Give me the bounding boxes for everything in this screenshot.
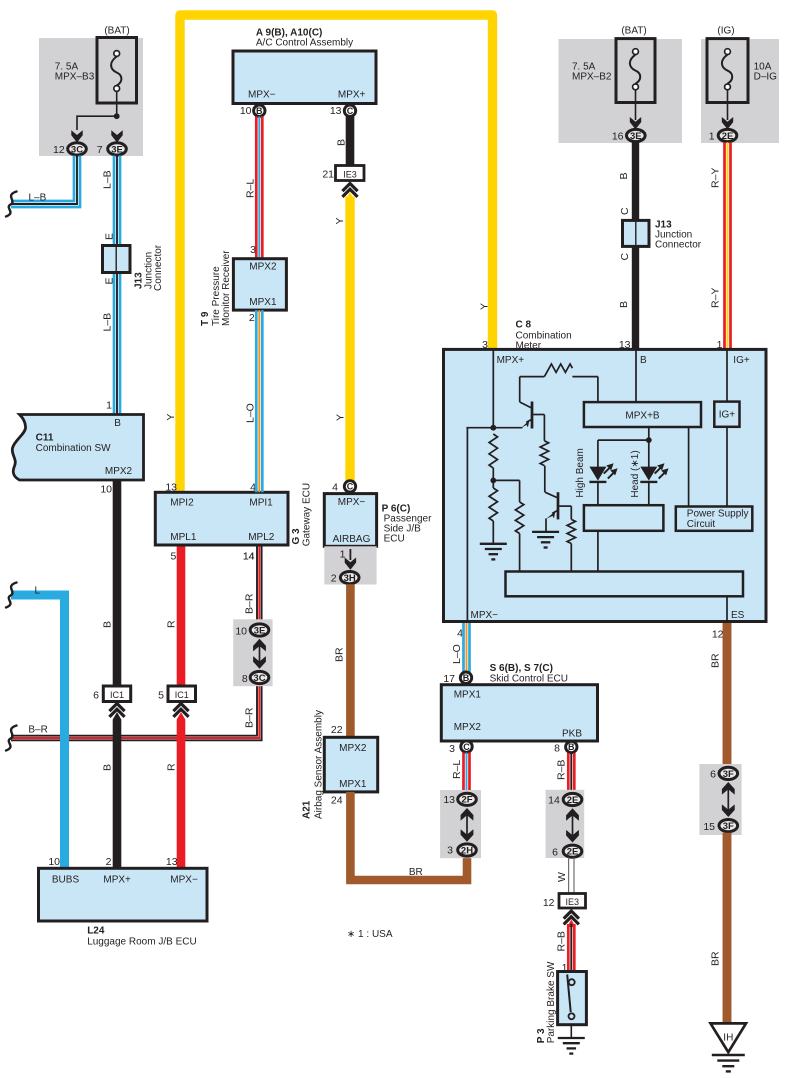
svg-text:MPI1: MPI1: [249, 497, 273, 508]
svg-text:24: 24: [331, 794, 343, 806]
svg-text:Y: Y: [334, 217, 346, 224]
component P3 Parking Brake SW: [558, 972, 587, 1025]
wire L-O from T9 to Gateway MPI1: [255, 310, 258, 492]
connector 2H: [458, 844, 477, 856]
label J13 left title: [134, 244, 165, 291]
box power supply circuit: [676, 507, 753, 531]
wire junction to MPX- line: [466, 427, 522, 429]
svg-text:B: B: [618, 172, 630, 179]
ground IH bars: [712, 1055, 745, 1071]
svg-text:R–Y: R–Y: [710, 288, 722, 308]
svg-text:Y: Y: [335, 414, 347, 421]
svg-text:5: 5: [171, 550, 177, 562]
wire MPX+ internal: [492, 349, 494, 427]
svg-text:Circuit: Circuit: [687, 519, 716, 530]
connector 3E right: [627, 129, 646, 141]
svg-text:R–Y: R–Y: [710, 168, 722, 188]
node junction divider: [490, 478, 496, 484]
wire L-B from 3C to left edge: [11, 156, 80, 208]
wire BR from 3F to IH: [723, 833, 732, 1024]
svg-text:MPX−: MPX−: [170, 874, 198, 885]
svg-text:14: 14: [243, 550, 255, 562]
component C8 Combination Meter box: [444, 349, 767, 621]
wire break squiggle L: [6, 583, 17, 608]
svg-text:17: 17: [443, 673, 455, 685]
svg-text:A21: A21: [302, 800, 313, 819]
arrow chevron below IC1 black: [112, 703, 123, 720]
svg-text:2E: 2E: [567, 795, 579, 806]
wire lamp driver to long box: [597, 531, 599, 572]
connector IC1 on B wire: [103, 686, 130, 702]
svg-text:2F: 2F: [461, 795, 472, 806]
svg-text:(BAT): (BAT): [621, 26, 646, 37]
svg-text:14: 14: [548, 795, 560, 807]
connector 3F lower: [719, 820, 738, 832]
svg-text:1: 1: [709, 130, 715, 142]
svg-text:L–O: L–O: [451, 644, 463, 664]
svg-text:B: B: [102, 621, 114, 628]
svg-text:21: 21: [322, 168, 334, 180]
connector 3E: [108, 143, 127, 155]
wire to LED2: [648, 440, 650, 467]
svg-text:MPX2: MPX2: [454, 722, 482, 733]
fuse MPX-B2 symbol: [616, 39, 655, 103]
connector 3F upper: [719, 767, 738, 779]
svg-text:BR: BR: [709, 653, 721, 668]
fuse block 7.5A MPX-B2 gray background: [559, 39, 683, 143]
title P3 vertical: [536, 961, 557, 1043]
svg-text:3F: 3F: [723, 769, 734, 780]
svg-text:7: 7: [97, 144, 103, 156]
wire BR from A21 to 2H: [350, 792, 467, 880]
connector 3E pair: [250, 624, 269, 636]
svg-text:B: B: [102, 764, 114, 771]
junction dot under fuse MPX-B3: [114, 113, 120, 119]
transistor Q2: [545, 492, 571, 532]
gray box 3E 3C pair: [233, 619, 272, 686]
transistor Q1: [520, 377, 545, 429]
ground G1: [480, 543, 507, 545]
wire R from Gateway MPL1 to L24: [177, 545, 186, 868]
svg-text:MPX1: MPX1: [454, 689, 482, 700]
title C8: [516, 319, 572, 351]
svg-text:3C: 3C: [253, 673, 265, 684]
pin B circle A/C: [254, 105, 265, 116]
wire node to R3: [493, 479, 519, 481]
svg-text:IG+: IG+: [733, 355, 750, 366]
svg-text:Skid Control ECU: Skid Control ECU: [490, 673, 568, 684]
svg-text:MPX1: MPX1: [339, 779, 367, 790]
ground below P3: [558, 1037, 585, 1039]
svg-text:IE3: IE3: [566, 897, 580, 907]
svg-text:10: 10: [100, 483, 112, 495]
svg-text:MPX+: MPX+: [338, 90, 366, 101]
svg-text:High Beam: High Beam: [575, 448, 586, 497]
wire MPX+B to power supply: [688, 427, 690, 507]
wire B-R from Gateway MPL2 down through 3E 3C to left edge: [261, 545, 263, 624]
svg-text:2: 2: [331, 573, 337, 585]
svg-text:B: B: [568, 742, 575, 752]
gray box 2E 2E pair: [546, 790, 585, 858]
connector 2F: [458, 793, 477, 805]
wire LED branch horizontal: [598, 439, 649, 441]
pin C circle A/C: [344, 105, 355, 116]
connector IE3 top: [336, 166, 365, 181]
svg-text:2: 2: [106, 856, 112, 868]
svg-text:BR: BR: [709, 951, 721, 966]
svg-text:Y: Y: [165, 414, 177, 421]
wire break squiggle B-R: [6, 726, 17, 751]
arrow into connector 2E right: [722, 117, 733, 129]
svg-text:E: E: [103, 277, 115, 284]
svg-text:15: 15: [703, 821, 715, 833]
svg-text:∗ 1 : USA: ∗ 1 : USA: [347, 929, 393, 940]
svg-text:L24: L24: [87, 925, 105, 936]
svg-text:B: B: [463, 673, 470, 683]
svg-text:B–R: B–R: [244, 593, 256, 614]
wire R-Y from 2E to C8 pin 1: [723, 142, 726, 349]
pin C circle skid: [461, 741, 472, 752]
svg-text:ES: ES: [731, 610, 745, 621]
svg-text:Monitor Receiver: Monitor Receiver: [221, 250, 232, 326]
wire R-B from IE3 to P3: [567, 924, 570, 972]
double arrow 3F to 3F: [727, 788, 729, 811]
junction connector J13 left: [103, 246, 131, 273]
fuse D-IG symbol: [707, 39, 748, 103]
svg-text:MPX+B: MPX+B: [625, 410, 660, 421]
svg-text:IE3: IE3: [343, 169, 357, 179]
ground G2: [532, 531, 559, 533]
connector IC1 on R wire: [168, 686, 196, 702]
fuse block 7.5A MPX-B3 gray background: [39, 38, 143, 156]
svg-text:2: 2: [249, 312, 255, 324]
wire IG+ to IG+ box: [726, 349, 728, 401]
component P6 Passenger Side J/B ECU: [324, 494, 376, 547]
svg-text:R–L: R–L: [244, 179, 256, 198]
svg-text:B: B: [640, 355, 647, 366]
svg-text:Y: Y: [478, 303, 490, 310]
svg-text:MPX–B3: MPX–B3: [55, 71, 95, 82]
svg-text:BR: BR: [409, 867, 423, 878]
svg-text:13: 13: [165, 482, 177, 494]
svg-text:12: 12: [53, 144, 65, 156]
fuse MPX-B2 rating text: [572, 61, 612, 82]
svg-text:4: 4: [332, 481, 338, 493]
svg-text:8: 8: [242, 673, 248, 685]
title G3 vertical: [291, 483, 313, 546]
title J13 right: [655, 219, 702, 250]
connector IE3 bottom: [559, 894, 586, 909]
title skid: [490, 663, 568, 684]
svg-text:MPX+: MPX+: [497, 355, 525, 366]
svg-text:2E: 2E: [567, 847, 579, 858]
svg-text:22: 22: [331, 724, 343, 736]
wire BR from 3H to A21: [346, 584, 355, 737]
wire IG+ box to power supply: [726, 427, 728, 507]
svg-text:3: 3: [447, 845, 453, 857]
svg-text:B: B: [114, 418, 121, 429]
wire from fuse MPX-B3 to junction: [116, 92, 118, 117]
svg-text:L–O: L–O: [244, 403, 256, 423]
svg-text:D–IG: D–IG: [754, 71, 778, 82]
svg-text:Combination: Combination: [516, 330, 572, 341]
connector 2E right: [718, 129, 737, 141]
arrow chevron below IC1 red: [176, 703, 187, 720]
svg-text:IC1: IC1: [175, 690, 189, 700]
svg-text:3E: 3E: [254, 625, 266, 636]
resistor R2: [540, 415, 548, 493]
svg-text:16: 16: [612, 130, 624, 142]
double arrow 2E to 2E: [572, 814, 574, 836]
svg-text:Parking Brake SW: Parking Brake SW: [546, 961, 557, 1043]
fuse MPX-B3 symbol: [97, 38, 137, 104]
svg-text:C: C: [619, 253, 631, 261]
junction connector J13 right: [623, 220, 650, 246]
arrow chevron below IE3: [345, 183, 356, 200]
wire fuse D-IG to arrow: [727, 90, 729, 120]
svg-text:ECU: ECU: [384, 533, 405, 544]
svg-text:MPX−: MPX−: [471, 610, 499, 621]
double arrow 2F to 2H: [466, 814, 468, 836]
arrow into connector 3C: [71, 130, 82, 142]
svg-text:Airbag Sensor Assembly: Airbag Sensor Assembly: [314, 710, 325, 819]
svg-text:Combination SW: Combination SW: [36, 443, 112, 454]
svg-text:3C: 3C: [71, 144, 83, 155]
svg-text:L–B: L–B: [101, 313, 113, 332]
component A21 Airbag Sensor Assembly: [324, 737, 377, 792]
double arrow 3E to 3C: [259, 645, 261, 663]
arrow chevron below IE3 bottom: [566, 911, 577, 928]
svg-text:3F: 3F: [723, 821, 734, 832]
svg-text:13: 13: [443, 794, 455, 806]
svg-text:MPL1: MPL1: [170, 532, 197, 543]
connector 3C: [68, 143, 87, 155]
svg-text:W: W: [556, 872, 568, 882]
svg-text:C: C: [463, 742, 470, 752]
svg-text:3E: 3E: [630, 131, 642, 142]
svg-text:AIRBAG: AIRBAG: [333, 534, 371, 545]
wire B to MPX+B: [635, 349, 637, 402]
svg-text:2H: 2H: [461, 845, 473, 856]
title P6: [382, 503, 432, 544]
node LED branch: [646, 437, 652, 443]
svg-text:6: 6: [552, 846, 558, 858]
wire Y loop from Gateway MPI2 over top to C8 pin 3: [180, 15, 493, 492]
svg-text:(BAT): (BAT): [104, 26, 129, 37]
svg-text:A/C Control Assembly: A/C Control Assembly: [256, 37, 353, 48]
wire break squiggle left L-B: [6, 192, 17, 217]
svg-text:MPL2: MPL2: [248, 532, 275, 543]
wire R1a to node: [492, 468, 494, 480]
svg-text:E: E: [103, 233, 115, 240]
svg-text:MPI2: MPI2: [170, 497, 194, 508]
wire branch to pin 12: [76, 116, 117, 130]
component S6 S7 Skid Control ECU: [441, 685, 597, 741]
wire B from A/C pin C to IE3: [346, 116, 355, 165]
component C11 Combination SW: [12, 415, 143, 481]
svg-text:B: B: [618, 301, 630, 308]
svg-text:(IG): (IG): [717, 26, 734, 37]
wire L from left edge to L24: [11, 595, 65, 868]
svg-text:3E: 3E: [111, 144, 123, 155]
svg-text:5: 5: [158, 689, 164, 701]
svg-text:12: 12: [543, 897, 555, 909]
title A21 vertical: [302, 710, 325, 819]
svg-text:L–B: L–B: [101, 170, 113, 189]
svg-text:MPX−: MPX−: [338, 497, 366, 508]
svg-text:13: 13: [166, 856, 178, 868]
resistor R4: [567, 506, 575, 571]
svg-text:BR: BR: [334, 647, 346, 662]
connector 3H: [340, 572, 359, 584]
arrow into 3H: [345, 549, 356, 570]
svg-text:R: R: [166, 620, 178, 628]
svg-text:Connector: Connector: [153, 244, 164, 291]
LED Head: [640, 463, 668, 505]
svg-text:R–B: R–B: [555, 760, 567, 780]
wire B-R from 3C to left edge: [11, 685, 262, 741]
gray box 2F 2H pair: [440, 790, 481, 858]
svg-text:T 9: T 9: [200, 311, 211, 326]
svg-text:12: 12: [712, 628, 724, 640]
wire L-B from 3E to C11: [113, 156, 116, 415]
wire B from 3E to C8 pin 13: [632, 142, 639, 349]
svg-text:R–B: R–B: [555, 931, 567, 951]
resistor R3: [515, 480, 523, 571]
wire Y from IE3 to P6: [345, 197, 354, 482]
arrow into connector 3E: [111, 130, 122, 142]
svg-text:10: 10: [235, 625, 247, 637]
wire MPX- internal: [466, 428, 468, 622]
title A9 A10: [256, 28, 353, 49]
svg-text:MPX+: MPX+: [103, 874, 131, 885]
pin B circle skid PKB: [566, 741, 577, 752]
wire R-B from PKB to 2E: [567, 753, 570, 792]
arrow into connector 3E right: [630, 117, 641, 129]
wire BR from C8 ES to 3F: [723, 623, 732, 766]
fuse MPX-B3 rating text: [55, 61, 95, 82]
resistor Rtop: [520, 364, 598, 402]
svg-text:C11: C11: [36, 433, 54, 444]
fuse D-IG rating text: [754, 61, 778, 82]
pin C circle P6: [344, 481, 355, 492]
wire B from C11 to L24: [113, 480, 122, 868]
svg-text:Connector: Connector: [655, 239, 702, 250]
svg-text:C 8: C 8: [516, 319, 532, 330]
svg-text:L–B: L–B: [29, 193, 47, 204]
svg-text:13: 13: [330, 105, 342, 117]
svg-text:Luggage Room J/B ECU: Luggage Room J/B ECU: [87, 936, 197, 947]
wire P3 to ground: [570, 1025, 572, 1038]
svg-text:PKB: PKB: [562, 728, 582, 739]
svg-text:6: 6: [93, 689, 99, 701]
svg-text:Head (∗1): Head (∗1): [630, 450, 641, 497]
svg-text:MPX2: MPX2: [105, 466, 133, 477]
svg-text:3H: 3H: [344, 573, 356, 584]
wire to LED1: [597, 440, 599, 467]
svg-text:10: 10: [48, 856, 60, 868]
svg-text:L: L: [35, 586, 41, 597]
svg-text:MPX−: MPX−: [248, 90, 276, 101]
svg-text:G 3: G 3: [291, 528, 302, 545]
connector 2E lower: [563, 845, 582, 857]
svg-text:3: 3: [250, 244, 256, 256]
svg-text:C: C: [347, 482, 354, 492]
box IG+: [714, 402, 739, 427]
svg-text:MPX2: MPX2: [249, 261, 277, 272]
connector 2E upper: [563, 793, 582, 805]
resistor R1a: [489, 434, 497, 468]
resistor R1b: [489, 480, 497, 543]
svg-text:C: C: [347, 106, 354, 116]
gray box 3F 3F pair: [699, 764, 741, 835]
box lamp driver: [584, 505, 664, 531]
component L24 Luggage Room J/B ECU: [39, 868, 208, 921]
wire R-L from A/C pin B to T9: [255, 116, 258, 258]
box long bottom: [506, 572, 744, 597]
svg-text:B–R: B–R: [28, 725, 47, 736]
component A/C Control Assembly: [233, 51, 376, 104]
svg-text:IG+: IG+: [719, 410, 736, 421]
svg-text:C: C: [619, 207, 631, 215]
fuse block 10A D-IG gray background: [701, 39, 779, 143]
svg-text:MPX–B2: MPX–B2: [572, 71, 612, 82]
svg-text:B–R: B–R: [244, 707, 256, 728]
title L24: [87, 925, 197, 947]
wire ES internal: [726, 596, 728, 621]
wire R-L from Skid to 2F: [462, 753, 465, 792]
svg-text:R–L: R–L: [451, 760, 463, 779]
pin B circle skid: [460, 672, 471, 683]
wire L-O from C8 MPX- to Skid: [462, 623, 465, 672]
svg-text:Power Supply: Power Supply: [687, 508, 749, 519]
svg-text:B: B: [335, 139, 347, 146]
svg-text:10: 10: [240, 105, 252, 117]
wire W from 2E to IE3: [569, 858, 574, 894]
svg-text:IH: IH: [723, 1033, 733, 1044]
box MPX+B: [584, 402, 701, 427]
component T9 Tire Pressure Monitor Receiver: [233, 259, 286, 310]
node junction MPX+: [490, 425, 496, 431]
LED High Beam: [589, 463, 617, 505]
svg-text:3: 3: [449, 743, 455, 755]
connector 3C pair: [250, 671, 269, 683]
svg-text:2E: 2E: [722, 131, 734, 142]
svg-text:Gateway ECU: Gateway ECU: [302, 483, 313, 546]
svg-text:6: 6: [710, 768, 716, 780]
svg-text:IC1: IC1: [110, 690, 124, 700]
svg-text:1: 1: [106, 400, 112, 412]
svg-text:MPX2: MPX2: [339, 743, 367, 754]
svg-text:MPX1: MPX1: [249, 297, 277, 308]
wire fuse MPX-B2 to arrow: [635, 90, 637, 120]
wire MPX+B to LED node: [648, 427, 650, 440]
gray box below P6: [324, 546, 376, 584]
svg-text:R: R: [166, 763, 178, 771]
svg-text:BUBS: BUBS: [52, 874, 80, 885]
ground IH triangle: [711, 1023, 747, 1052]
component G3 Gateway ECU: [155, 492, 288, 545]
svg-text:B: B: [256, 106, 263, 116]
svg-text:8: 8: [554, 743, 560, 755]
title T9 vertical: [200, 250, 232, 326]
